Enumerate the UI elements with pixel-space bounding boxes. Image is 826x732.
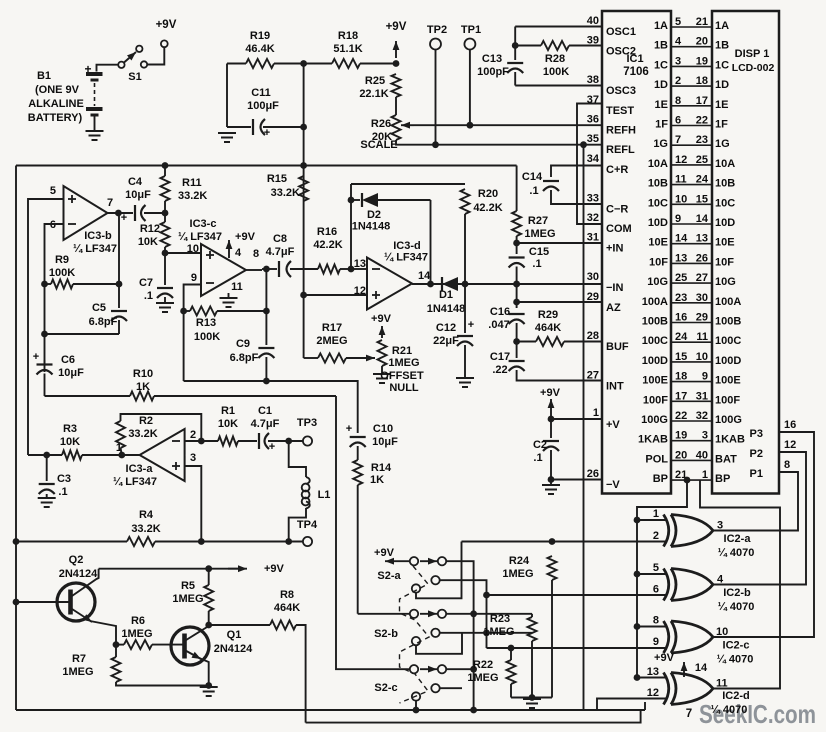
svg-text:26: 26	[696, 252, 708, 264]
svg-text:R20: R20	[478, 188, 498, 200]
svg-text:TEST: TEST	[606, 105, 634, 117]
svg-text:+: +	[346, 423, 352, 435]
svg-text:31: 31	[587, 232, 599, 244]
svg-text:10: 10	[696, 351, 708, 363]
svg-text:+: +	[269, 441, 275, 453]
svg-text:+9V: +9V	[156, 19, 177, 31]
svg-text:10C: 10C	[648, 197, 668, 209]
svg-text:+9V: +9V	[235, 231, 256, 243]
svg-text:AZ: AZ	[606, 302, 621, 314]
svg-text:OSC1: OSC1	[606, 26, 636, 38]
svg-text:10G: 10G	[715, 276, 736, 288]
svg-text:−V: −V	[606, 479, 620, 491]
svg-text:+9V: +9V	[371, 313, 392, 325]
svg-text:10B: 10B	[715, 178, 735, 190]
svg-text:TP3: TP3	[297, 417, 317, 429]
svg-text:1K: 1K	[136, 381, 150, 393]
svg-text:R2: R2	[139, 415, 153, 427]
svg-text:¼ 4070: ¼ 4070	[718, 601, 755, 613]
svg-text:40: 40	[696, 449, 708, 461]
svg-text:30: 30	[696, 292, 708, 304]
svg-text:1C: 1C	[654, 59, 668, 71]
svg-text:P1: P1	[750, 468, 763, 480]
svg-text:+: +	[264, 127, 270, 139]
svg-text:10F: 10F	[715, 256, 734, 268]
svg-text:3: 3	[702, 430, 708, 442]
svg-text:10A: 10A	[715, 158, 735, 170]
svg-text:S1: S1	[128, 71, 141, 83]
svg-text:100K: 100K	[194, 331, 220, 343]
svg-text:46.4K: 46.4K	[245, 43, 274, 55]
svg-text:1MEG: 1MEG	[467, 672, 498, 684]
svg-text:2: 2	[190, 429, 196, 441]
svg-text:100pF: 100pF	[477, 66, 509, 78]
svg-text:42.2K: 42.2K	[313, 239, 342, 251]
svg-text:6: 6	[50, 219, 56, 231]
svg-text:12: 12	[675, 154, 687, 166]
svg-text:R24: R24	[509, 555, 530, 567]
svg-text:10: 10	[675, 193, 687, 205]
svg-text:100A: 100A	[715, 296, 741, 308]
svg-text:100K: 100K	[543, 66, 569, 78]
svg-text:1B: 1B	[654, 40, 668, 52]
svg-text:100C: 100C	[642, 335, 668, 347]
svg-text:R18: R18	[338, 30, 358, 42]
svg-text:IC2-b: IC2-b	[723, 587, 751, 599]
svg-text:10E: 10E	[648, 237, 668, 249]
svg-text:−IN: −IN	[606, 282, 623, 294]
svg-text:R13: R13	[196, 317, 216, 329]
svg-text:P2: P2	[750, 448, 763, 460]
svg-text:33: 33	[587, 192, 599, 204]
svg-text:23: 23	[696, 134, 708, 146]
svg-text:C−R: C−R	[606, 203, 628, 215]
svg-text:P3: P3	[750, 428, 763, 440]
svg-text:10: 10	[716, 626, 728, 638]
svg-text:14: 14	[418, 270, 431, 282]
svg-text:+: +	[84, 62, 91, 76]
svg-text:4.7μF: 4.7μF	[266, 246, 295, 258]
svg-text:R19: R19	[250, 30, 270, 42]
svg-text:1MEG: 1MEG	[524, 228, 555, 240]
svg-text:3: 3	[190, 452, 196, 464]
svg-text:C16: C16	[490, 306, 510, 318]
svg-text:6: 6	[653, 584, 659, 596]
svg-text:2MEG: 2MEG	[316, 335, 347, 347]
svg-text:TP1: TP1	[461, 24, 481, 36]
svg-text:REFH: REFH	[606, 125, 636, 137]
svg-text:33.2K: 33.2K	[128, 428, 157, 440]
svg-text:13: 13	[647, 666, 659, 678]
svg-text:15: 15	[675, 351, 687, 363]
svg-text:1E: 1E	[715, 99, 728, 111]
svg-text:10E: 10E	[715, 237, 735, 249]
svg-text:10μF: 10μF	[58, 367, 84, 379]
svg-text:IC3-b: IC3-b	[84, 230, 112, 242]
svg-text:7: 7	[675, 134, 681, 146]
svg-text:35: 35	[587, 133, 599, 145]
svg-text:25: 25	[675, 272, 687, 284]
svg-text:OFFSET: OFFSET	[380, 370, 424, 382]
svg-text:IC2-a: IC2-a	[724, 533, 752, 545]
svg-text:1E: 1E	[655, 99, 668, 111]
svg-text:22μF: 22μF	[433, 335, 459, 347]
svg-text:1A: 1A	[715, 20, 729, 32]
svg-text:R8: R8	[280, 589, 294, 601]
svg-text:21: 21	[696, 16, 708, 28]
svg-text:TP4: TP4	[297, 519, 318, 531]
svg-text:+9V: +9V	[654, 652, 675, 664]
svg-text:14: 14	[675, 233, 688, 245]
svg-text:+9V: +9V	[540, 387, 561, 399]
svg-text:3: 3	[717, 520, 723, 532]
svg-text:100C: 100C	[715, 335, 741, 347]
svg-text:10μF: 10μF	[125, 189, 151, 201]
svg-text:1N4148: 1N4148	[352, 221, 391, 233]
svg-text:C11: C11	[251, 87, 271, 99]
svg-text:1G: 1G	[653, 138, 668, 150]
svg-text:10: 10	[187, 243, 199, 255]
svg-text:9: 9	[702, 371, 708, 383]
svg-text:17: 17	[675, 390, 687, 402]
svg-text:8: 8	[675, 95, 681, 107]
svg-text:DISP 1: DISP 1	[735, 48, 770, 60]
svg-text:26: 26	[587, 468, 599, 480]
svg-text:REFL: REFL	[606, 144, 635, 156]
svg-text:32: 32	[696, 410, 708, 422]
svg-text:R16: R16	[317, 226, 337, 238]
svg-text:+: +	[468, 319, 474, 331]
svg-text:C14: C14	[522, 171, 543, 183]
svg-text:1: 1	[702, 469, 708, 481]
svg-text:1KAB: 1KAB	[715, 434, 745, 446]
svg-text:1N4148: 1N4148	[427, 303, 466, 315]
svg-text:IC3-c: IC3-c	[190, 218, 217, 230]
svg-text:R21: R21	[392, 345, 412, 357]
svg-text:29: 29	[587, 291, 599, 303]
svg-text:1A: 1A	[654, 20, 668, 32]
svg-text:¼ LF347: ¼ LF347	[113, 476, 157, 488]
svg-text:S2-b: S2-b	[374, 628, 398, 640]
svg-text:R15: R15	[267, 173, 287, 185]
svg-text:6.8pF: 6.8pF	[89, 316, 118, 328]
svg-text:29: 29	[696, 312, 708, 324]
svg-text:23: 23	[675, 292, 687, 304]
svg-text:IC2-c: IC2-c	[723, 640, 750, 652]
svg-text:42.2K: 42.2K	[473, 202, 502, 214]
svg-text:100D: 100D	[642, 355, 668, 367]
svg-text:100G: 100G	[715, 414, 742, 426]
svg-text:BATTERY): BATTERY)	[28, 112, 83, 124]
svg-text:R14: R14	[371, 462, 392, 474]
svg-text:6: 6	[675, 115, 681, 127]
svg-text:1MEG: 1MEG	[62, 666, 93, 678]
svg-text:.22: .22	[492, 364, 507, 376]
svg-text:C15: C15	[529, 246, 549, 258]
svg-text:R29: R29	[538, 309, 558, 321]
svg-text:10D: 10D	[648, 217, 668, 229]
svg-text:¼ 4070: ¼ 4070	[718, 547, 755, 559]
svg-text:4: 4	[717, 574, 724, 586]
svg-text:C+R: C+R	[606, 164, 628, 176]
svg-text:32: 32	[587, 212, 599, 224]
svg-text:11: 11	[716, 678, 728, 690]
svg-text:4: 4	[675, 36, 682, 48]
svg-text:R6: R6	[131, 615, 145, 627]
svg-text:100A: 100A	[642, 296, 668, 308]
svg-text:2N4124: 2N4124	[214, 643, 253, 655]
svg-text:1MEG: 1MEG	[388, 357, 419, 369]
svg-text:40: 40	[587, 15, 599, 27]
svg-text:33.2K: 33.2K	[131, 523, 160, 535]
svg-text:S2-a: S2-a	[377, 570, 401, 582]
svg-text:2: 2	[675, 75, 681, 87]
svg-text:.1: .1	[533, 452, 542, 464]
svg-text:R5: R5	[181, 580, 195, 592]
svg-text:D1: D1	[439, 289, 453, 301]
svg-text:R12: R12	[140, 223, 160, 235]
svg-text:.047: .047	[488, 319, 509, 331]
svg-text:(ONE 9V: (ONE 9V	[35, 84, 80, 96]
svg-text:1MEG: 1MEG	[172, 593, 203, 605]
svg-text:100E: 100E	[715, 375, 741, 387]
svg-text:BP: BP	[653, 473, 668, 485]
svg-text:C9: C9	[236, 338, 250, 350]
svg-text:COM: COM	[606, 223, 632, 235]
svg-text:10K: 10K	[138, 236, 158, 248]
svg-text:8: 8	[653, 615, 659, 627]
svg-text:20: 20	[696, 36, 708, 48]
svg-text:INT: INT	[606, 381, 624, 393]
svg-text:2N4124: 2N4124	[59, 568, 98, 580]
svg-text:19: 19	[696, 55, 708, 67]
svg-text:D2: D2	[367, 209, 381, 221]
svg-text:10K: 10K	[60, 436, 80, 448]
svg-text:Q1: Q1	[227, 629, 242, 641]
svg-text:1MEG: 1MEG	[121, 628, 152, 640]
svg-text:34: 34	[587, 153, 600, 165]
svg-text:7: 7	[686, 708, 692, 720]
svg-text:.1: .1	[529, 185, 538, 197]
svg-text:464K: 464K	[274, 602, 300, 614]
svg-text:R7: R7	[72, 653, 86, 665]
svg-text:+9V: +9V	[386, 21, 407, 33]
svg-text:C8: C8	[273, 233, 287, 245]
svg-text:28: 28	[587, 330, 599, 342]
svg-text:10B: 10B	[648, 178, 668, 190]
svg-text:Q2: Q2	[69, 554, 84, 566]
svg-text:9: 9	[653, 636, 659, 648]
svg-text:BUF: BUF	[606, 341, 629, 353]
svg-text:33.2K: 33.2K	[178, 190, 207, 202]
svg-text:15: 15	[696, 193, 708, 205]
svg-text:+9V: +9V	[374, 547, 395, 559]
svg-text:+: +	[121, 212, 127, 224]
svg-text:S2-c: S2-c	[374, 682, 397, 694]
svg-text:1D: 1D	[715, 79, 729, 91]
svg-text:IC3-a: IC3-a	[126, 463, 154, 475]
svg-text:SCALE: SCALE	[360, 139, 397, 151]
svg-text:¼ 4070: ¼ 4070	[711, 704, 748, 716]
svg-text:33.2K: 33.2K	[271, 187, 300, 199]
svg-text:C6: C6	[61, 354, 75, 366]
svg-text:2: 2	[653, 530, 659, 542]
svg-text:¼ LF347: ¼ LF347	[73, 243, 117, 255]
svg-text:.1: .1	[58, 486, 67, 498]
svg-text:ALKALINE: ALKALINE	[28, 98, 84, 110]
svg-text:14: 14	[696, 213, 709, 225]
svg-text:3: 3	[675, 55, 681, 67]
svg-text:100F: 100F	[643, 394, 668, 406]
svg-text:8: 8	[784, 459, 790, 471]
svg-text:100K: 100K	[49, 267, 75, 279]
svg-text:22: 22	[696, 115, 708, 127]
svg-text:16: 16	[675, 312, 687, 324]
svg-text:OSC2: OSC2	[606, 46, 636, 58]
svg-text:1C: 1C	[715, 59, 729, 71]
svg-text:13: 13	[696, 233, 708, 245]
svg-text:14: 14	[695, 662, 708, 674]
svg-text:4: 4	[235, 247, 242, 259]
svg-text:R4: R4	[139, 509, 154, 521]
svg-text:IC2-d: IC2-d	[722, 690, 750, 702]
svg-text:19: 19	[675, 430, 687, 442]
svg-text:R10: R10	[133, 368, 153, 380]
svg-text:11: 11	[231, 281, 243, 293]
svg-text:31: 31	[696, 390, 708, 402]
svg-text:IC3-d: IC3-d	[393, 240, 421, 252]
svg-text:1D: 1D	[654, 79, 668, 91]
svg-text:10K: 10K	[218, 418, 238, 430]
svg-text:7: 7	[107, 197, 113, 209]
svg-text:1B: 1B	[715, 40, 729, 52]
svg-text:R23: R23	[490, 613, 510, 625]
svg-text:R28: R28	[545, 53, 565, 65]
svg-text:C2: C2	[533, 439, 547, 451]
svg-text:R17: R17	[322, 322, 342, 334]
svg-text:7106: 7106	[623, 66, 649, 78]
svg-text:51.1K: 51.1K	[333, 43, 362, 55]
svg-text:1MEG: 1MEG	[483, 626, 514, 638]
svg-text:100G: 100G	[641, 414, 668, 426]
svg-text:C10: C10	[373, 423, 393, 435]
svg-text:20: 20	[675, 449, 687, 461]
svg-text:R27: R27	[528, 215, 548, 227]
svg-text:C1: C1	[258, 405, 272, 417]
svg-text:C17: C17	[490, 351, 510, 363]
svg-text:+9V: +9V	[264, 563, 285, 575]
svg-text:R9: R9	[55, 254, 69, 266]
svg-text:C5: C5	[92, 302, 106, 314]
svg-text:¼ 4070: ¼ 4070	[717, 654, 754, 666]
svg-text:9: 9	[191, 272, 197, 284]
svg-text:100B: 100B	[715, 316, 741, 328]
svg-text:5: 5	[675, 16, 681, 28]
svg-text:¼ LF347: ¼ LF347	[178, 231, 222, 243]
svg-text:+V: +V	[606, 419, 620, 431]
svg-text:24: 24	[675, 331, 688, 343]
svg-text:36: 36	[587, 114, 599, 126]
svg-text:17: 17	[696, 95, 708, 107]
svg-text:1G: 1G	[715, 138, 730, 150]
svg-text:10G: 10G	[647, 276, 668, 288]
svg-text:B1: B1	[37, 70, 51, 82]
svg-text:R22: R22	[473, 659, 493, 671]
svg-text:.1: .1	[532, 258, 541, 270]
svg-text:1K: 1K	[370, 474, 384, 486]
svg-text:R25: R25	[365, 75, 385, 87]
svg-text:22.1K: 22.1K	[359, 88, 388, 100]
svg-text:12: 12	[784, 439, 796, 451]
svg-text:100F: 100F	[715, 394, 740, 406]
svg-text:1KAB: 1KAB	[638, 434, 668, 446]
svg-text:16: 16	[784, 419, 796, 431]
svg-text:10D: 10D	[715, 217, 735, 229]
svg-text:+IN: +IN	[606, 243, 623, 255]
svg-text:5: 5	[653, 562, 659, 574]
svg-text:13: 13	[675, 252, 687, 264]
svg-text:5: 5	[50, 185, 56, 197]
svg-text:TP2: TP2	[427, 24, 447, 36]
svg-text:18: 18	[696, 75, 708, 87]
svg-text:BP: BP	[715, 473, 730, 485]
svg-text:¼ LF347: ¼ LF347	[384, 252, 428, 264]
svg-text:100μF: 100μF	[247, 100, 279, 112]
svg-text:R1: R1	[221, 405, 235, 417]
svg-text:LCD-002: LCD-002	[732, 62, 775, 74]
svg-text:1F: 1F	[715, 119, 728, 131]
svg-text:11: 11	[675, 174, 687, 186]
svg-text:24: 24	[696, 174, 709, 186]
svg-text:12: 12	[647, 687, 659, 699]
svg-text:9: 9	[675, 213, 681, 225]
svg-text:L1: L1	[318, 489, 331, 501]
svg-text:30: 30	[587, 271, 599, 283]
svg-text:4.7μF: 4.7μF	[251, 418, 280, 430]
svg-text:25: 25	[696, 154, 708, 166]
svg-text:C12: C12	[436, 322, 456, 334]
svg-text:C3: C3	[57, 473, 71, 485]
svg-text:38: 38	[587, 74, 599, 86]
svg-text:8: 8	[253, 248, 259, 260]
svg-text:NULL: NULL	[389, 382, 419, 394]
svg-text:11: 11	[696, 331, 708, 343]
svg-text:22: 22	[675, 410, 687, 422]
svg-text:100D: 100D	[715, 355, 741, 367]
svg-text:6.8pF: 6.8pF	[230, 352, 259, 364]
svg-text:10C: 10C	[715, 197, 735, 209]
svg-text:1F: 1F	[655, 119, 668, 131]
svg-text:.1: .1	[144, 290, 153, 302]
svg-text:1: 1	[653, 508, 659, 520]
svg-text:R3: R3	[63, 423, 77, 435]
svg-text:C13: C13	[482, 53, 502, 65]
svg-text:OSC3: OSC3	[606, 85, 636, 97]
svg-text:POL: POL	[645, 453, 668, 465]
svg-text:R26: R26	[371, 118, 391, 130]
svg-text:C4: C4	[128, 176, 143, 188]
svg-text:100B: 100B	[642, 316, 668, 328]
svg-text:10μF: 10μF	[372, 436, 398, 448]
svg-text:10A: 10A	[648, 158, 668, 170]
svg-text:BAT: BAT	[715, 453, 737, 465]
svg-text:18: 18	[675, 371, 687, 383]
svg-text:100E: 100E	[642, 375, 668, 387]
svg-text:10F: 10F	[649, 256, 668, 268]
svg-text:27: 27	[696, 272, 708, 284]
svg-text:+: +	[33, 351, 39, 363]
svg-text:464K: 464K	[535, 322, 561, 334]
